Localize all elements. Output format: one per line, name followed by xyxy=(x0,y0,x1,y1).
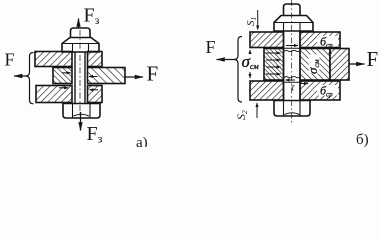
svg-text:а): а) xyxy=(136,135,148,147)
svg-text:б): б) xyxy=(356,132,369,147)
svg-text:F: F xyxy=(206,37,216,57)
svg-text:F: F xyxy=(5,50,15,70)
svg-text:F: F xyxy=(367,47,379,71)
svg-text:F: F xyxy=(147,62,159,86)
svg-text:τ: τ xyxy=(291,83,295,94)
